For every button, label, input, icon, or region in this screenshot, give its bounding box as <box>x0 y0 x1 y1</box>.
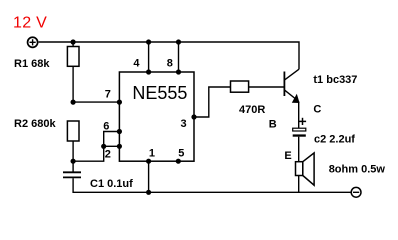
transistor collector diagonal <box>284 69 299 80</box>
svg-text:B: B <box>269 118 277 130</box>
transistor emitter diagonal <box>284 90 297 100</box>
transistor Q1 base bar <box>283 72 285 97</box>
wire C1 bottom to ground rail <box>73 178 351 192</box>
wire speaker to ground rail <box>298 176 300 193</box>
resistor R1 <box>67 47 79 67</box>
svg-text:R2 680k: R2 680k <box>14 118 56 130</box>
svg-text:E: E <box>284 150 291 162</box>
svg-text:7: 7 <box>105 88 111 100</box>
capacitor c2 bottom plate (solid) <box>293 134 306 136</box>
node Vcc/R1 junction <box>71 39 76 44</box>
resistor R2 <box>67 121 79 141</box>
op-amp; actually IC NE555 box <box>119 72 194 161</box>
svg-text:6: 6 <box>103 120 109 132</box>
svg-text:t1 bc337: t1 bc337 <box>313 74 357 86</box>
wire emitter to c2 <box>298 102 300 129</box>
node pin 8 <box>176 69 181 74</box>
node R2/C1 junction <box>71 159 76 164</box>
svg-text:1: 1 <box>149 147 155 159</box>
wire pin 1 to ground <box>148 161 150 192</box>
speaker horn <box>303 153 314 185</box>
wire pin 8 riser <box>178 42 180 72</box>
wire pin 7 <box>73 101 119 103</box>
node pin 2 <box>117 144 122 149</box>
node pin 4 <box>146 69 151 74</box>
supply + terminal <box>28 37 38 47</box>
node pin 1 <box>146 159 151 164</box>
wire pin 2 stub <box>104 145 120 147</box>
speaker body rect <box>296 162 303 176</box>
node pin 7 <box>117 100 122 105</box>
wire junction to pins 2,6 <box>73 132 119 162</box>
svg-text:C: C <box>313 103 321 115</box>
wire R1 top <box>72 42 74 47</box>
supply - terminal <box>351 187 361 197</box>
Vcc rail wire <box>39 42 299 69</box>
svg-text:4: 4 <box>133 57 140 69</box>
svg-text:3: 3 <box>181 118 187 130</box>
wire pin 3 to resistor <box>194 87 231 117</box>
node pin 3 <box>191 114 196 119</box>
wire resistor to base <box>249 86 285 88</box>
wire c2 to speaker <box>298 137 300 162</box>
wire R2 bottom <box>72 141 74 161</box>
emitter arrowhead <box>292 94 300 103</box>
node pin4 rail <box>146 39 151 44</box>
wire pin 4 riser <box>148 42 150 72</box>
svg-text:5: 5 <box>178 147 184 159</box>
svg-text:c2 2.2uf: c2 2.2uf <box>314 134 355 146</box>
node pin 6 <box>117 129 122 134</box>
wire C1 top stub <box>72 161 74 171</box>
svg-text:NE555: NE555 <box>132 83 187 103</box>
node pin8 rail <box>176 39 181 44</box>
wire R1 bottom <box>72 66 74 102</box>
svg-text:8ohm 0.5w: 8ohm 0.5w <box>329 164 386 176</box>
capacitor C1 <box>63 171 81 173</box>
svg-text:12 V: 12 V <box>13 15 47 32</box>
svg-text:8: 8 <box>167 57 173 69</box>
svg-text:C1 0.1uf: C1 0.1uf <box>90 178 133 190</box>
svg-text:R1 68k: R1 68k <box>14 58 50 70</box>
plus sign of c2 <box>299 120 306 122</box>
capacitor c2 top plate (hollow) <box>293 128 306 131</box>
svg-text:470R: 470R <box>239 104 265 116</box>
node pin 5 <box>176 159 181 164</box>
node pin1/ground junction <box>146 190 151 195</box>
resistor 470R <box>231 81 249 92</box>
svg-text:2: 2 <box>105 148 111 160</box>
node R1/R2/pin7 junction <box>71 100 76 105</box>
node pin2 stub left <box>101 144 106 149</box>
